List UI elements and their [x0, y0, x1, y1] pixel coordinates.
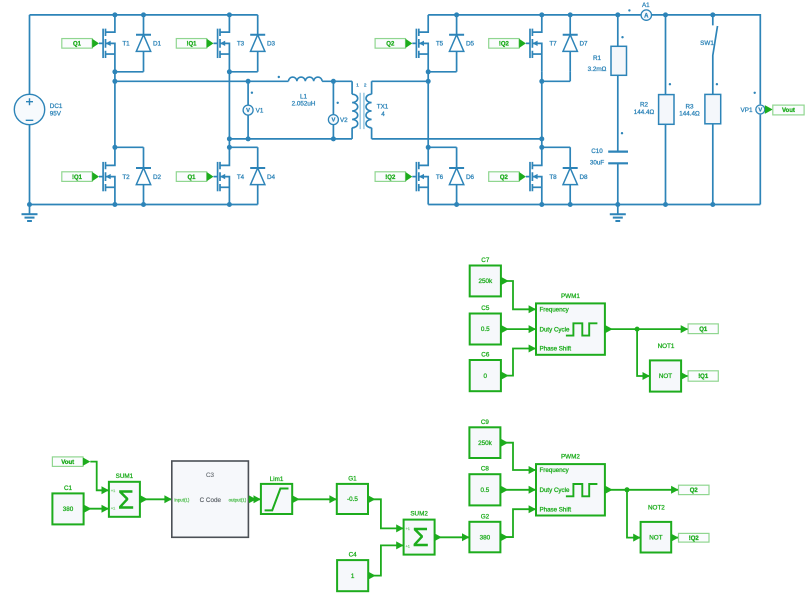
svg-text:DC1: DC1	[50, 103, 63, 110]
svg-text:2.052uH: 2.052uH	[292, 101, 316, 108]
svg-text:Duty Cycle: Duty Cycle	[540, 487, 570, 494]
svg-text:D4: D4	[267, 174, 276, 181]
svg-text:Frequency: Frequency	[540, 467, 570, 474]
svg-text:PWM1: PWM1	[561, 293, 580, 300]
svg-text:L1: L1	[300, 93, 308, 100]
svg-text:R3: R3	[685, 104, 694, 111]
svg-text:PWM2: PWM2	[561, 454, 580, 461]
svg-text:V: V	[758, 108, 762, 114]
svg-text:2: 2	[364, 82, 367, 87]
svg-text:Lim1: Lim1	[270, 476, 284, 483]
svg-text:!Q1: !Q1	[72, 175, 83, 181]
svg-text:250k: 250k	[478, 440, 493, 447]
svg-text:!Q2: !Q2	[689, 536, 700, 542]
svg-text:0: 0	[484, 373, 488, 380]
svg-text:C8: C8	[481, 466, 490, 473]
svg-text:380: 380	[63, 506, 74, 513]
svg-text:C3: C3	[206, 472, 215, 479]
svg-text:144.4Ω: 144.4Ω	[634, 109, 655, 116]
svg-text:D2: D2	[153, 174, 162, 181]
svg-text:T2: T2	[122, 174, 130, 181]
svg-text:Phase Shift: Phase Shift	[540, 506, 572, 513]
svg-text:T1: T1	[122, 41, 130, 48]
svg-text:+1: +1	[111, 489, 115, 493]
svg-text:4: 4	[381, 111, 385, 118]
svg-text:V2: V2	[340, 117, 348, 124]
svg-text:1: 1	[356, 82, 359, 87]
svg-text:30uF: 30uF	[590, 160, 605, 167]
svg-text:T3: T3	[237, 41, 245, 48]
svg-text:!Q1: !Q1	[186, 42, 197, 48]
svg-text:0.5: 0.5	[481, 326, 490, 333]
svg-text:!Q2: !Q2	[499, 42, 510, 48]
svg-text:VP1: VP1	[741, 107, 753, 114]
svg-text:D7: D7	[579, 41, 588, 48]
svg-text:Q1: Q1	[187, 175, 196, 181]
svg-text:C4: C4	[349, 552, 358, 559]
svg-text:Vout: Vout	[61, 460, 74, 466]
svg-text:Q1: Q1	[73, 42, 82, 48]
svg-text:!Q2: !Q2	[385, 175, 396, 181]
svg-text:T5: T5	[436, 41, 444, 48]
svg-text:Input(1): Input(1)	[174, 497, 190, 502]
svg-text:D8: D8	[579, 174, 588, 181]
svg-text:D3: D3	[267, 41, 276, 48]
svg-text:T4: T4	[237, 174, 245, 181]
svg-text:T8: T8	[549, 174, 557, 181]
svg-text:380: 380	[480, 534, 491, 541]
svg-text:0.5: 0.5	[481, 487, 490, 494]
svg-text:Phase Shift: Phase Shift	[540, 346, 572, 353]
svg-text:R2: R2	[640, 101, 649, 108]
svg-text:NOT: NOT	[649, 534, 662, 541]
svg-text:144.4Ω: 144.4Ω	[679, 111, 700, 118]
svg-text:NOT2: NOT2	[648, 505, 665, 512]
svg-text:C1: C1	[64, 485, 73, 492]
svg-text:NOT: NOT	[659, 373, 672, 380]
svg-text:250k: 250k	[478, 278, 493, 285]
svg-text:TX1: TX1	[377, 103, 389, 110]
svg-text:T6: T6	[436, 174, 444, 181]
svg-text:Q2: Q2	[386, 42, 395, 48]
svg-text:Frequency: Frequency	[540, 307, 570, 314]
svg-text:SUM1: SUM1	[116, 473, 134, 480]
svg-text:1: 1	[351, 573, 355, 580]
svg-text:Q1: Q1	[699, 327, 708, 333]
svg-text:Σ: Σ	[118, 484, 134, 514]
svg-text:C7: C7	[481, 257, 490, 264]
svg-text:C6: C6	[481, 352, 490, 359]
svg-text:D5: D5	[466, 41, 475, 48]
svg-text:Duty Cycle: Duty Cycle	[540, 326, 570, 333]
svg-text:R1: R1	[593, 55, 602, 62]
svg-text:Q2: Q2	[690, 488, 699, 494]
svg-text:C Code: C Code	[200, 497, 222, 504]
svg-text:+1: +1	[406, 527, 410, 531]
svg-text:T7: T7	[549, 41, 557, 48]
svg-text:V: V	[246, 108, 250, 114]
svg-text:SUM2: SUM2	[410, 511, 428, 518]
svg-text:!Q1: !Q1	[698, 374, 709, 380]
svg-text:+1: +1	[111, 506, 115, 510]
svg-text:Q2: Q2	[500, 175, 509, 181]
svg-text:Σ: Σ	[413, 522, 429, 552]
svg-text:V1: V1	[256, 107, 264, 114]
svg-text:Vout: Vout	[782, 108, 795, 114]
svg-text:output(1): output(1)	[229, 497, 247, 502]
svg-text:D6: D6	[466, 174, 475, 181]
svg-text:-0.5: -0.5	[347, 496, 358, 503]
svg-text:SW1: SW1	[700, 40, 714, 47]
svg-text:A1: A1	[642, 2, 650, 9]
svg-text:G1: G1	[348, 475, 357, 482]
svg-text:C9: C9	[481, 419, 490, 426]
svg-text:G2: G2	[481, 513, 490, 520]
svg-text:NOT1: NOT1	[658, 343, 675, 350]
svg-text:D1: D1	[153, 41, 162, 48]
svg-text:95V: 95V	[50, 110, 62, 117]
svg-text:V: V	[331, 118, 335, 124]
svg-text:A: A	[644, 13, 649, 19]
svg-text:+1: +1	[406, 544, 410, 548]
svg-text:C10: C10	[591, 148, 603, 155]
svg-text:C5: C5	[481, 305, 490, 312]
svg-text:3.2mΩ: 3.2mΩ	[588, 66, 607, 73]
